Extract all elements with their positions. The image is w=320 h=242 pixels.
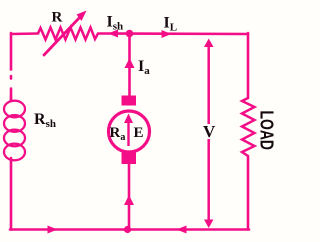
inductor Rsh (shunt field coil)	[4, 95, 25, 162]
resistor R (field rheostat zigzag)	[38, 28, 98, 40]
arrow Ish (pointing left on top wire)	[108, 30, 118, 38]
arrow Ia (up, above armature)	[125, 58, 135, 68]
svg-text:E: E	[134, 125, 144, 141]
resistor LOAD zigzag	[242, 98, 255, 156]
wire top-left segment	[11, 32, 38, 35]
armature bottom brush	[122, 153, 137, 165]
svg-text:V: V	[203, 122, 216, 141]
wire right lower	[247, 156, 250, 230]
V arrow head bottom (down)	[204, 220, 214, 229]
svg-text:LOAD: LOAD	[257, 111, 277, 151]
wire left lower	[10, 158, 13, 230]
arrow bottom-right (pointing left)	[177, 226, 187, 234]
wire armature branch lower	[128, 164, 131, 230]
V arrow head top (up)	[204, 39, 214, 48]
armature inner arrow (E direction)	[124, 114, 133, 147]
wire left upper	[10, 33, 13, 101]
node junction top (armature tap)	[126, 30, 134, 38]
arrow IL (pointing right on top wire)	[162, 30, 172, 38]
arrow on armature lower wire (up)	[124, 195, 134, 205]
wire right upper	[247, 33, 250, 98]
wire top-right segment	[98, 32, 248, 35]
svg-text:R: R	[52, 10, 63, 26]
arrow bottom-left (pointing right)	[48, 226, 58, 234]
wire armature branch upper	[128, 34, 131, 96]
armature circle	[109, 111, 150, 152]
wire bottom	[10, 228, 249, 231]
rheostat diagonal arrow	[44, 11, 87, 56]
armature machine U1: top brush	[122, 96, 137, 106]
node junction bottom	[124, 226, 131, 233]
V arrow line upper	[207, 44, 210, 124]
V arrow line lower	[207, 139, 210, 222]
